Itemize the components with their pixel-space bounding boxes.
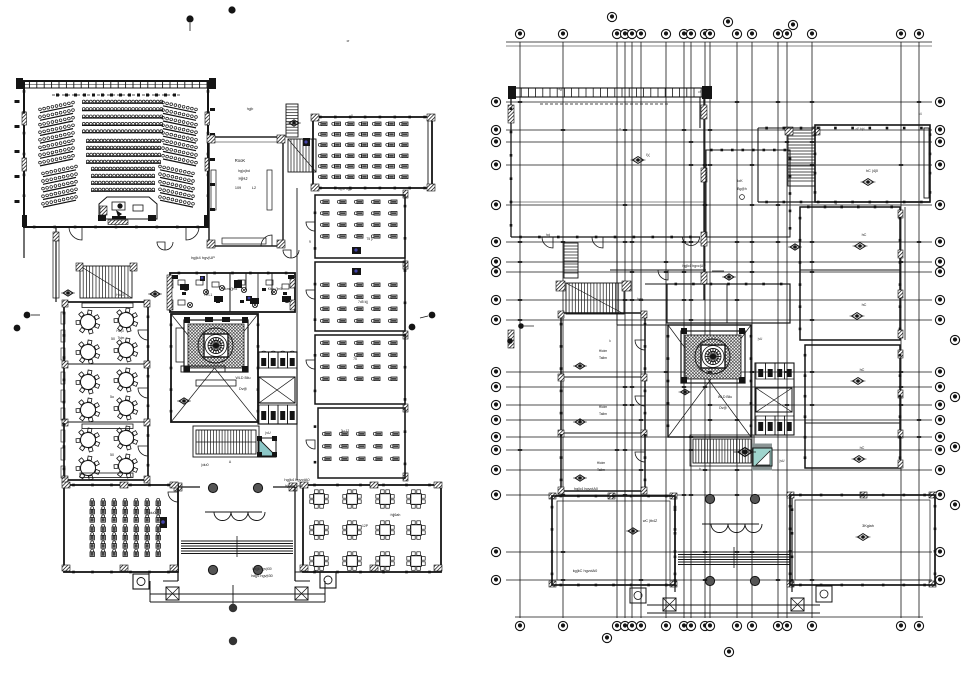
foyer hall walls: [209, 137, 283, 246]
grid marker left 1: [24, 312, 31, 319]
svg-text:|du0: |du0: [149, 511, 156, 515]
auditorium left angled seat bank: [39, 101, 75, 166]
entrance steps right plan: [678, 551, 790, 553]
horizontal grid lines: [506, 102, 932, 580]
svg-text:50: 50: [111, 337, 115, 341]
mandala bottom bar: [181, 366, 225, 372]
bottom grid line and bubbles: [515, 616, 923, 618]
svg-text:Hlc|3: Hlc|3: [116, 329, 123, 333]
left wall window recesses: [61, 312, 65, 324]
auditorium center seat rows block A: [82, 100, 163, 133]
auditorium right angled seat bank: [162, 101, 198, 166]
grid intersection dashes right plan: [518, 101, 921, 581]
roof band over auditorium: [511, 88, 710, 97]
stair block west (right plan): [566, 283, 624, 314]
svg-text:hjC hg|jvdD: hjC hg|jvdD: [285, 484, 303, 488]
entrance scalloped door arcs: [214, 512, 265, 521]
svg-text:hC: hC: [860, 446, 865, 450]
main stair beside foyer: [288, 139, 316, 172]
corridor walls right plan middle: [616, 237, 618, 325]
west stair block: [80, 266, 132, 298]
seminar room 2 round tables: [76, 370, 100, 394]
stair upper flight: [286, 104, 298, 137]
office fixtures: [178, 280, 185, 285]
svg-text:3Kglah: 3Kglah: [862, 524, 874, 528]
svg-text:k: k: [51, 152, 53, 156]
narrow stair upper: [564, 243, 578, 278]
svg-text:9: 9: [309, 240, 311, 244]
svg-text:hg|k4 hgvctA0: hg|k4 hgvctA0: [574, 487, 598, 491]
projector icon C2-C3: [352, 247, 361, 254]
classroom C3 walls: [315, 262, 405, 331]
svg-text:HjHJ: HjHJ: [238, 176, 247, 181]
offices block above atrium: [170, 273, 295, 312]
svg-text:hC: hC: [862, 303, 867, 307]
bottom-right room right plan: [790, 495, 935, 585]
diamond left of offices: [148, 291, 162, 297]
svg-text::h|j6ah: :h|j6ah: [390, 513, 401, 517]
right grid bubbles: [935, 97, 944, 106]
svg-text:cF: cF: [698, 90, 702, 94]
misc diamonds right plan: [631, 157, 646, 164]
svg-text:Hicim: Hicim: [599, 405, 608, 409]
classroom C5 walls: [318, 408, 405, 478]
svg-text:|vU: |vU: [758, 337, 763, 341]
corridor wall left of classrooms: [296, 188, 298, 480]
atrium diamond marker: [177, 398, 191, 404]
svg-text:hg|k4 hgv|UP: hg|k4 hgv|UP: [191, 255, 215, 260]
grid marker right 2: [429, 312, 436, 319]
svg-text:hg|: hg|: [546, 233, 551, 237]
bottom center marker circles: [229, 604, 237, 612]
right rooms double wall east: [904, 207, 906, 340]
slab edge line right plan: [511, 201, 705, 203]
mandala corner pads: [184, 317, 190, 323]
svg-text:7o L1: 7o L1: [204, 293, 213, 297]
entrance columns right plan: [705, 494, 714, 503]
stage front hatch strip: [108, 220, 128, 225]
svg-text:75 j7: 75 j7: [366, 237, 373, 241]
top right stair block: [788, 130, 815, 186]
porch square-circle columns: [133, 574, 149, 589]
auditorium exterior window ticks: [15, 100, 216, 211]
classroom door arcs: [306, 222, 315, 231]
atrium right plan: [668, 325, 751, 437]
seminar room divider 2: [64, 421, 148, 423]
toilet block right plan: [755, 363, 794, 435]
seminar room 1 round tables: [76, 310, 100, 334]
seminar room door arcs: [138, 330, 148, 340]
svg-text:loK: loK: [737, 179, 743, 183]
mandala right plan: [681, 331, 745, 383]
entrance columns round: [208, 483, 217, 492]
office partial walls: [206, 273, 208, 295]
svg-text:3u 12: 3u 12: [341, 429, 350, 433]
svg-text:Kkm (]m5: Kkm (]m5: [223, 287, 238, 291]
auditorium center seat rows block C: [91, 167, 155, 191]
right rooms column walls: [800, 207, 900, 340]
svg-text:Ts|m: Ts|m: [118, 336, 125, 340]
office small icons dark: [200, 276, 205, 281]
svg-text:cF b|d: cF b|d: [856, 127, 865, 131]
auditorium center seat rows block B: [86, 139, 161, 163]
svg-text:5o: 5o: [110, 395, 114, 399]
toilet stalls bottom row: [259, 405, 269, 424]
atrium mandala hatched ring: [184, 320, 248, 372]
auditorium wall piers: [22, 112, 27, 125]
entrance side walls stubs: [110, 571, 178, 573]
left grid bubbles: [491, 97, 500, 106]
svg-text:hg|: hg|: [558, 87, 563, 91]
door arc classroom: [168, 492, 178, 502]
atrium courtyard walls: [171, 314, 258, 422]
office divider walls: [229, 273, 231, 312]
west exterior wall segment: [55, 227, 57, 302]
svg-text:wC |tb4Z: wC |tb4Z: [643, 519, 658, 523]
entrance hall right plan: [674, 498, 676, 592]
foyer door arc: [261, 235, 272, 246]
projector icon C1: [303, 138, 310, 146]
classroom C1 walls (top right): [313, 117, 432, 188]
grid marker top 1: [186, 15, 193, 22]
grid marker top 2: [228, 6, 235, 13]
toilet block walls: [258, 352, 297, 424]
cyan ramp right plan: [753, 448, 772, 466]
grand stair below atrium: [196, 430, 256, 454]
grid marker left 2: [14, 325, 21, 332]
wall tick marks right plan: [510, 107, 937, 586]
svg-text:h.: h.: [687, 242, 690, 246]
svg-text:12P: 12P: [362, 524, 369, 528]
classroom C2 desks: [320, 200, 397, 238]
svg-text:Hicim: Hicim: [599, 349, 608, 353]
svg-text:hd|j6 hgv|t30: hd|j6 hgv|t30: [252, 567, 271, 571]
porch xbox columns: [166, 587, 179, 600]
top right big room: [815, 125, 930, 202]
bottom room corner piers right plan: [549, 493, 556, 499]
svg-text:Dv@: Dv@: [239, 387, 247, 391]
svg-text:hg|o|bd: hg|o|bd: [238, 169, 250, 173]
grid marker right 1: [409, 324, 416, 331]
wall y237 with door arcs: [511, 236, 700, 238]
seminar rooms left column outer walls: [64, 302, 148, 480]
classroom C1 desks: [318, 122, 408, 147]
svg-text:Hlc|3: Hlc|3: [116, 293, 124, 297]
top frame line: [506, 41, 932, 43]
classroom C4 walls: [315, 335, 405, 404]
svg-text:Talim: Talim: [599, 356, 607, 360]
seminar room 3 round tables: [76, 428, 100, 452]
auditorium void east wall right plan: [703, 97, 705, 300]
auditorium exit door arcs: [69, 227, 82, 240]
big classroom bottom-left walls: [64, 485, 178, 572]
cyan ramp triangle: [259, 439, 276, 456]
svg-text:|du0: |du0: [201, 463, 208, 467]
small ref circles right plan: [518, 323, 524, 329]
porch right plan: [647, 604, 820, 606]
offices block (right plan): [667, 284, 790, 323]
svg-text:Bg@h: Bg@h: [737, 187, 747, 191]
auditorium stage podium: [99, 197, 157, 219]
stage interior extra marks: [100, 206, 107, 215]
svg-text:hC: hC: [862, 233, 867, 237]
atrium mandala circles: [198, 328, 233, 363]
double door below auditorium: [157, 242, 173, 250]
big classroom desks: [90, 498, 160, 522]
seminar room divider 1: [64, 363, 148, 365]
svg-text:RooK: RooK: [235, 158, 246, 163]
svg-text:10: 10: [201, 278, 205, 282]
svg-text:Talim: Talim: [599, 412, 607, 416]
stair below atrium right plan: [693, 439, 751, 463]
svg-text:Dv@: Dv@: [719, 406, 727, 410]
svg-text:Kkm (]m5: Kkm (]m5: [268, 287, 283, 291]
classroom C4 desks: [320, 341, 397, 381]
seminar room bench rects: [82, 303, 133, 308]
svg-text:b: b: [699, 467, 701, 471]
seminar rooms column (right plan): [561, 313, 645, 491]
auditorium outer walls: [24, 81, 208, 227]
svg-text:k4: k4: [918, 112, 922, 116]
classroom C2 walls: [315, 195, 405, 258]
diamond marker near stair: [287, 120, 301, 126]
svg-text:hd|j6 hgv|t30: hd|j6 hgv|t30: [251, 574, 273, 578]
diamonds seminar rooms: [573, 363, 587, 369]
svg-text:|vU: |vU: [265, 431, 271, 435]
entrance steps: [181, 540, 293, 542]
seminar room door arcs right plan: [635, 340, 645, 350]
svg-text:|vU: |vU: [779, 459, 785, 463]
auditorium top wall band with ticks: [18, 81, 214, 88]
left exterior wall right plan: [510, 88, 512, 237]
svg-text:hg|b: hg|b: [247, 107, 254, 111]
classroom column right wall: [404, 190, 406, 480]
elevator xbox: [259, 377, 295, 403]
svg-text:hC: hC: [860, 368, 865, 372]
dining hall walls: [303, 485, 441, 572]
porch outline: [150, 593, 325, 595]
svg-text:hg|k4 hgvc|UP: hg|k4 hgvc|UP: [682, 264, 706, 268]
bottom-left room right plan: [552, 496, 675, 585]
svg-text:hg|k4 hgvctA0: hg|k4 hgvctA0: [284, 477, 310, 482]
svg-text:kg|kC hgvctA0: kg|kC hgvctA0: [573, 569, 597, 573]
svg-text:7d5 k|j: 7d5 k|j: [358, 300, 368, 304]
atrium diagonals: [171, 314, 258, 422]
classroom C3 desks: [320, 283, 397, 323]
classroom C5 desks: [322, 432, 399, 461]
svg-text:WLD Bliu: WLD Bliu: [236, 376, 251, 380]
auditorium inner dotted line: [52, 94, 182, 96]
svg-text:L2: L2: [252, 186, 256, 190]
dining tables: [310, 490, 328, 508]
svg-text:75: 75: [353, 357, 357, 361]
svg-text:Talim: Talim: [597, 468, 605, 472]
svg-text:50: 50: [110, 453, 114, 457]
atrium side pads: [176, 328, 184, 362]
foyer wall recesses: [211, 170, 216, 210]
west stair arrow diamond: [61, 290, 75, 296]
entrance hall walls: [174, 483, 182, 491]
toilet stalls top row: [259, 352, 269, 368]
svg-text:Hicim: Hicim: [597, 461, 606, 465]
porch center mark: [232, 585, 234, 607]
svg-text:109: 109: [235, 186, 241, 190]
top grid bubbles: [515, 29, 524, 38]
blue icon entrance left: [160, 517, 167, 528]
vertical grid lines: [520, 42, 919, 618]
wall tick marks left plan: [23, 90, 431, 573]
svg-text:hC |4|0: hC |4|0: [866, 169, 878, 173]
wall y270 right plan with door: [610, 269, 706, 271]
foyer room right plan: [706, 150, 790, 237]
svg-text:WLD Bliu: WLD Bliu: [718, 395, 732, 399]
heavy diamond left of ramp: [734, 448, 756, 457]
